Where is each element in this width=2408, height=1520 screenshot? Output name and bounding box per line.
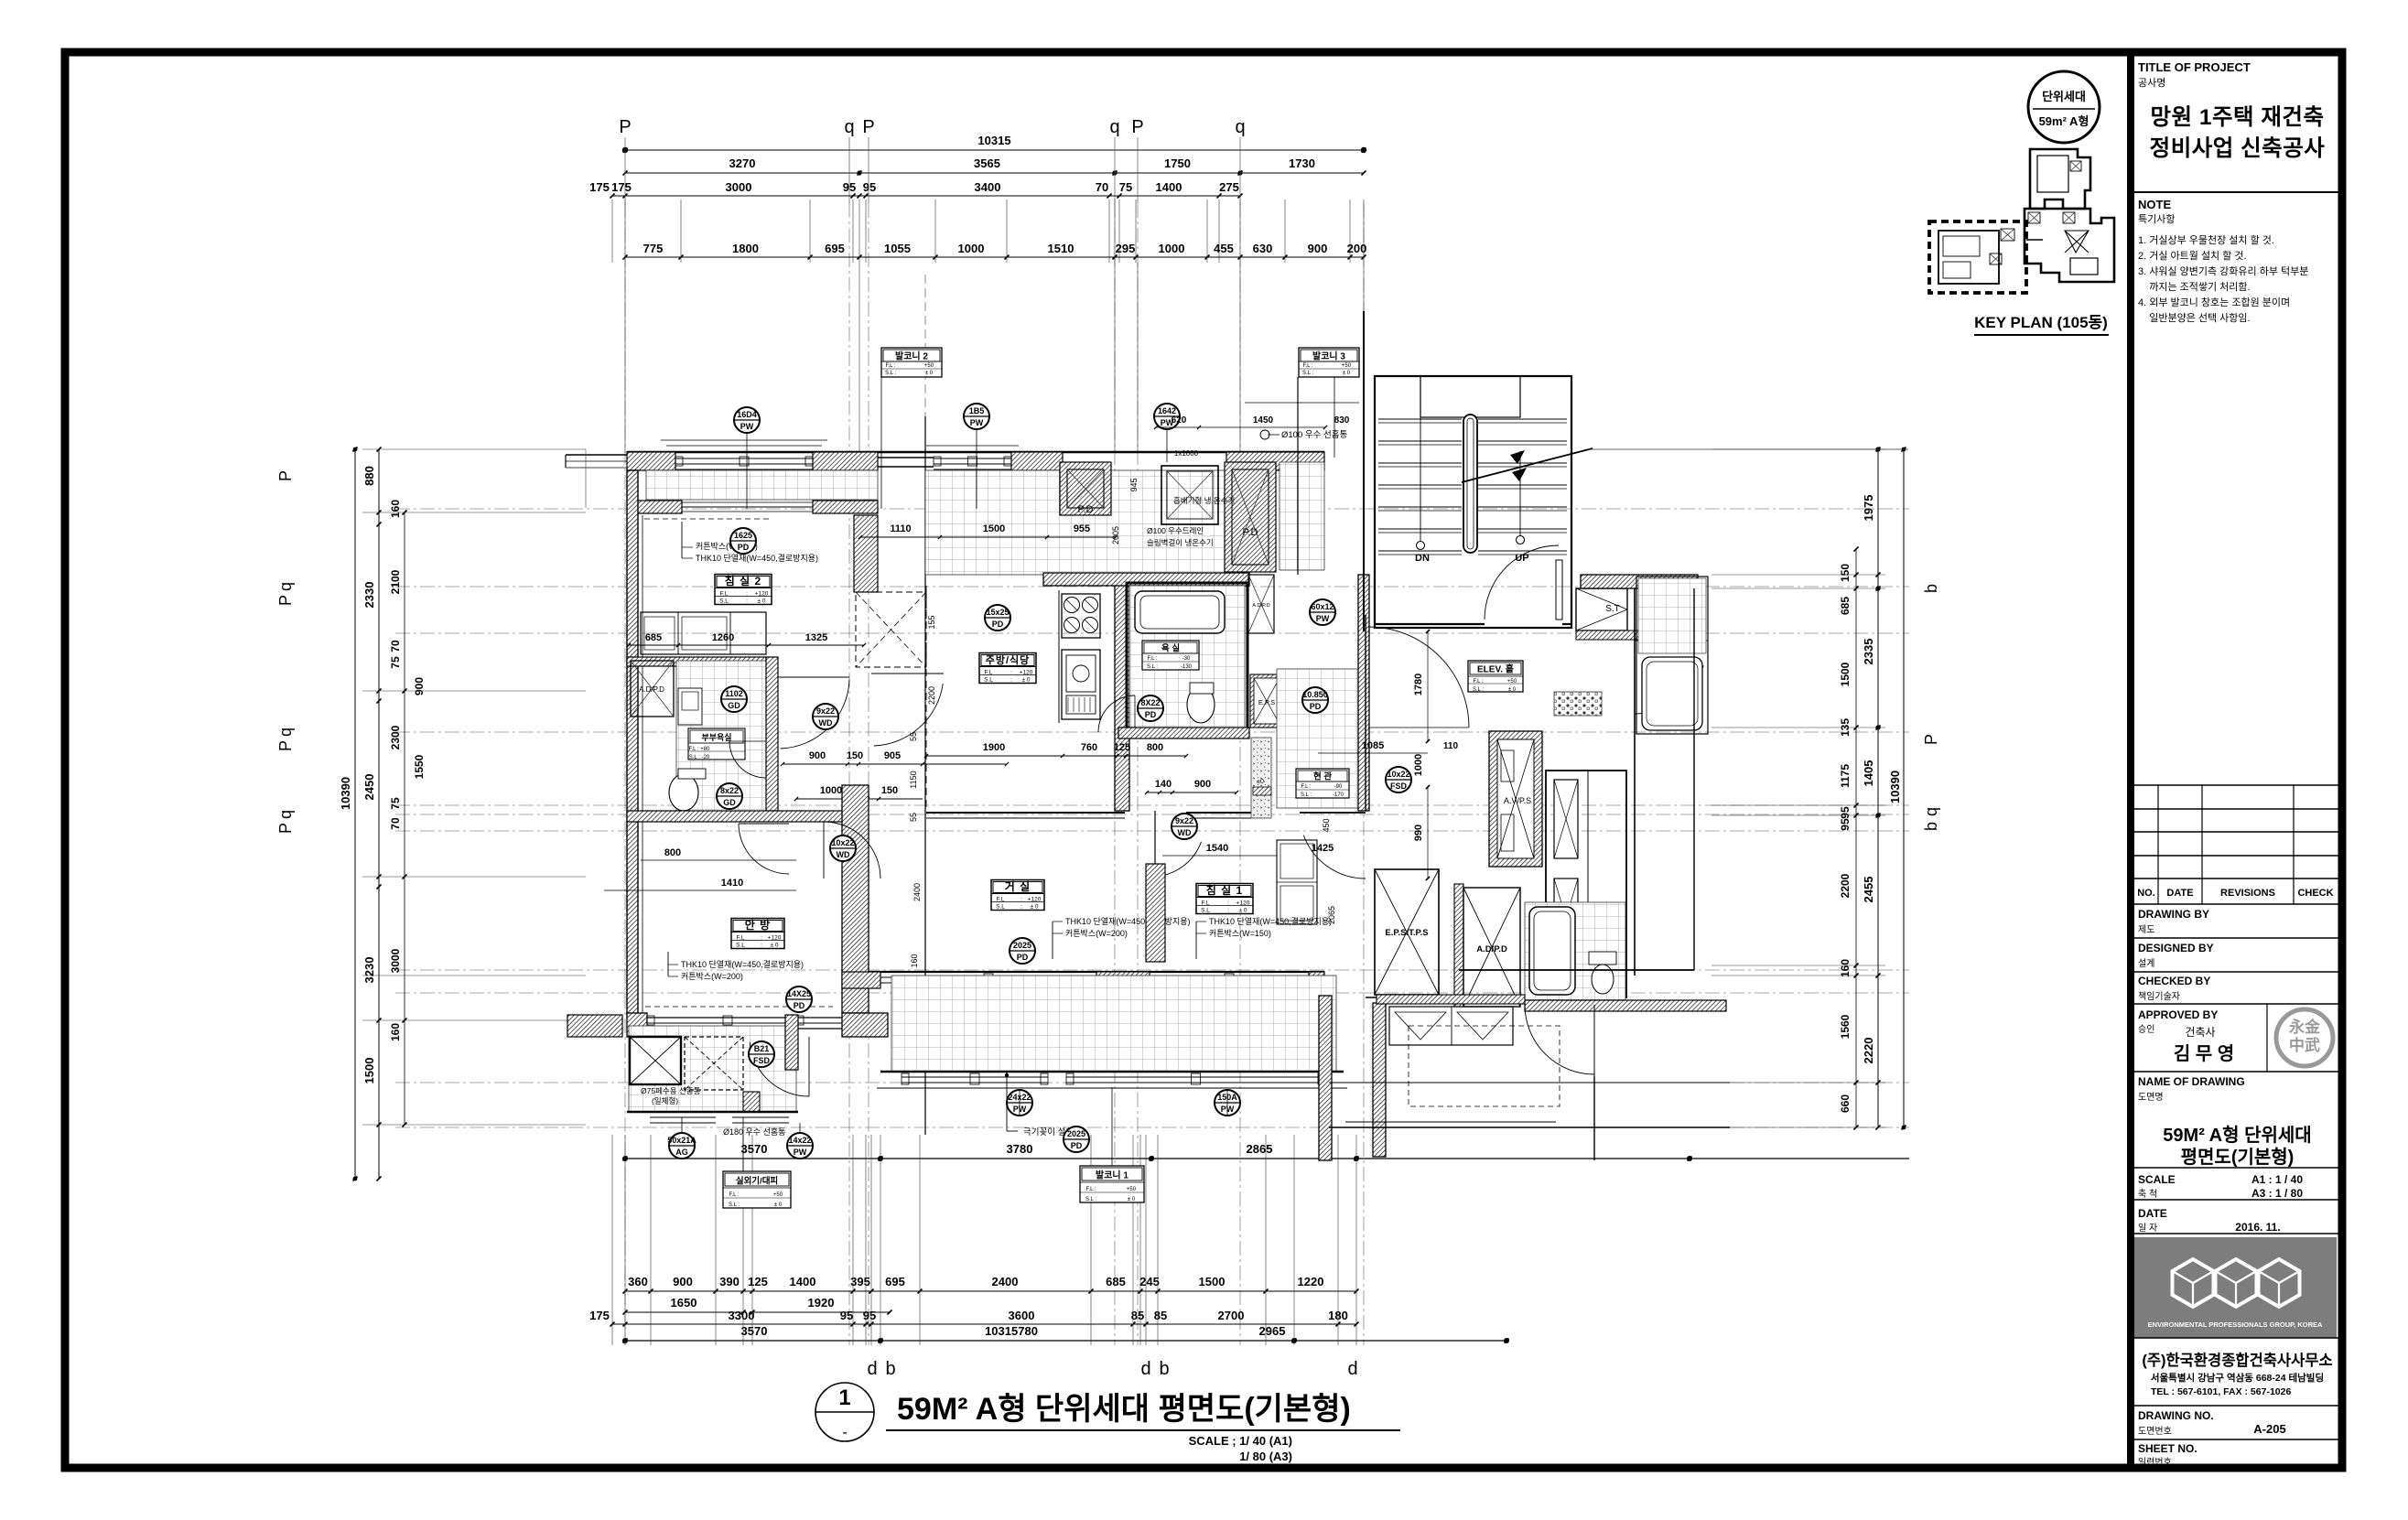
svg-text:일 자: 일 자 — [2138, 1223, 2157, 1234]
svg-text:S.L: S.L — [719, 598, 729, 605]
svg-text:침 실 2: 침 실 2 — [725, 574, 761, 588]
svg-text::: : — [746, 591, 748, 598]
svg-text:안 방: 안 방 — [745, 918, 771, 932]
svg-text:695: 695 — [825, 242, 845, 255]
svg-text:175: 175 — [589, 1309, 610, 1322]
svg-text:Ø100 우수 선홈통: Ø100 우수 선홈통 — [1281, 429, 1347, 440]
svg-text:1500: 1500 — [983, 523, 1005, 534]
svg-text:± 0: ± 0 — [1343, 371, 1351, 376]
svg-text:SCALE ; 1/ 40 (A1): SCALE ; 1/ 40 (A1) — [1189, 1434, 1292, 1448]
svg-text:F.L: F.L — [1202, 900, 1210, 907]
svg-text:4. 외부 발코니 창호는 조합원 분이며: 4. 외부 발코니 창호는 조합원 분이며 — [2138, 296, 2290, 308]
svg-text:390: 390 — [719, 1275, 740, 1288]
svg-text:S.L : -20: S.L : -20 — [689, 755, 710, 760]
svg-text:1110: 1110 — [890, 523, 911, 534]
svg-text:75: 75 — [1119, 180, 1132, 194]
svg-text:± 0: ± 0 — [1239, 908, 1247, 914]
svg-text:905: 905 — [884, 750, 901, 761]
svg-text:± 0: ± 0 — [774, 1202, 783, 1208]
svg-text::: : — [1010, 670, 1012, 676]
svg-text:10390: 10390 — [1888, 771, 1902, 803]
svg-text:3. 샤워실 양변기측 강화유리 하부 턱부분: 3. 샤워실 양변기측 강화유리 하부 턱부분 — [2138, 264, 2308, 277]
svg-text:커튼박스(W=200): 커튼박스(W=200) — [1065, 929, 1128, 938]
svg-text:TITLE OF PROJECT: TITLE OF PROJECT — [2138, 60, 2251, 74]
svg-text:110: 110 — [1443, 741, 1459, 751]
svg-text:WD: WD — [1178, 828, 1192, 837]
svg-text:WD: WD — [819, 718, 833, 728]
svg-text:75: 75 — [389, 797, 402, 810]
svg-text:± 0: ± 0 — [1031, 904, 1039, 911]
svg-text:FSD: FSD — [1390, 782, 1408, 791]
svg-text:450: 450 — [1322, 818, 1331, 832]
svg-text:PD: PD — [1145, 710, 1157, 719]
svg-text:2335: 2335 — [1862, 639, 1875, 665]
svg-text:125: 125 — [1114, 742, 1130, 753]
svg-text:800: 800 — [1147, 742, 1163, 753]
svg-text:E.P.S/T.P.S: E.P.S/T.P.S — [1385, 928, 1428, 938]
svg-text:일련번호: 일련번호 — [2138, 1457, 2172, 1468]
svg-text:정비사업 신축공사: 정비사업 신축공사 — [2150, 135, 2326, 161]
svg-text:59M² A형 단위세대: 59M² A형 단위세대 — [2163, 1125, 2311, 1146]
svg-text:10390: 10390 — [339, 777, 352, 810]
svg-text:150: 150 — [881, 785, 898, 796]
svg-text:3570: 3570 — [741, 1324, 768, 1338]
svg-text:+50: +50 — [773, 1192, 783, 1198]
svg-text:d: d — [867, 1359, 877, 1379]
svg-text:S.L: S.L — [996, 904, 1005, 911]
svg-text:F.L :: F.L : — [729, 1192, 739, 1198]
svg-text:1750: 1750 — [1164, 156, 1191, 170]
svg-text::: : — [761, 943, 762, 949]
svg-text:발코니 1: 발코니 1 — [1096, 1170, 1128, 1181]
svg-text:± 0: ± 0 — [925, 371, 934, 376]
svg-text:A.D/P.D: A.D/P.D — [639, 685, 664, 694]
svg-text:永金: 永金 — [2288, 1018, 2321, 1036]
svg-text:1625: 1625 — [734, 531, 752, 540]
svg-text:까지는 조적쌓기 처리함.: 까지는 조적쌓기 처리함. — [2138, 281, 2251, 293]
svg-text:A3 : 1 / 80: A3 : 1 / 80 — [2251, 1187, 2303, 1200]
svg-text:슬림벽걸이 냉온수기: 슬림벽걸이 냉온수기 — [1147, 538, 1214, 547]
svg-text::: : — [1020, 897, 1022, 903]
svg-text:P.D: P.D — [1078, 504, 1094, 515]
svg-text:GD: GD — [723, 798, 736, 807]
svg-text:A.D/P.D: A.D/P.D — [1252, 603, 1269, 609]
svg-text:PD: PD — [1310, 702, 1322, 711]
svg-text:830: 830 — [1334, 415, 1350, 426]
svg-text:275: 275 — [1219, 180, 1239, 194]
svg-text:1730: 1730 — [1289, 156, 1315, 170]
svg-text:160: 160 — [1839, 959, 1852, 977]
svg-text:P: P — [1922, 734, 1940, 745]
svg-text:1B5: 1B5 — [969, 406, 985, 415]
svg-text:+120: +120 — [755, 591, 769, 598]
svg-text:b: b — [1922, 584, 1940, 593]
svg-text:E.P.S: E.P.S — [1258, 698, 1275, 706]
svg-text:NAME OF DRAWING: NAME OF DRAWING — [2138, 1075, 2245, 1088]
svg-text:+50: +50 — [1127, 1187, 1137, 1192]
svg-text:175: 175 — [611, 180, 632, 194]
svg-text:P.D: P.D — [1243, 527, 1258, 538]
svg-text:2. 거실 아트월 설치 할 것.: 2. 거실 아트월 설치 할 것. — [2138, 250, 2247, 262]
svg-text:d: d — [1140, 1359, 1150, 1379]
svg-text:공사명: 공사명 — [2138, 77, 2165, 89]
svg-text:WD: WD — [837, 850, 850, 859]
svg-text:60x12: 60x12 — [1311, 602, 1334, 611]
svg-text:F.L :: F.L : — [1302, 363, 1312, 369]
svg-text:TEL : 567-6101, FAX : 567-1026: TEL : 567-6101, FAX : 567-1026 — [2151, 1386, 2291, 1397]
svg-text:395: 395 — [850, 1275, 870, 1288]
svg-text:15x25: 15x25 — [986, 608, 1009, 617]
svg-text:F.L: F.L — [985, 670, 993, 676]
svg-text:NO.: NO. — [2137, 888, 2155, 899]
svg-text:q: q — [1235, 117, 1245, 137]
svg-text:150: 150 — [847, 750, 863, 761]
svg-text:1410: 1410 — [721, 878, 743, 889]
svg-text:95: 95 — [1839, 818, 1852, 831]
svg-text:± 0: ± 0 — [771, 943, 779, 949]
svg-text:55: 55 — [909, 732, 918, 741]
svg-text:2965: 2965 — [1259, 1324, 1286, 1338]
svg-text:14X25: 14X25 — [787, 989, 811, 998]
svg-text:Ø75페수용 선홈통: Ø75페수용 선홈통 — [641, 1086, 701, 1095]
svg-text:q: q — [276, 810, 295, 819]
svg-text:S.L: S.L — [984, 677, 993, 684]
svg-text:PD: PD — [992, 620, 1004, 629]
svg-text:1000: 1000 — [1413, 754, 1424, 776]
svg-text:1. 거실상부 우물천장 설치 할 것.: 1. 거실상부 우물천장 설치 할 것. — [2138, 233, 2274, 246]
svg-text:2330: 2330 — [362, 582, 376, 609]
svg-text:3270: 3270 — [729, 156, 756, 170]
svg-text:책임기술자: 책임기술자 — [2138, 990, 2180, 1002]
svg-text:685: 685 — [645, 632, 662, 643]
svg-text:DESIGNED BY: DESIGNED BY — [2138, 942, 2214, 954]
svg-text:DATE: DATE — [2138, 1207, 2167, 1220]
svg-text:승인: 승인 — [2138, 1024, 2154, 1035]
svg-text:2016. 11.: 2016. 11. — [2235, 1221, 2280, 1234]
svg-text:S.T: S.T — [1605, 604, 1620, 614]
svg-text:± 0: ± 0 — [1128, 1197, 1136, 1202]
svg-text:THK10 단열재(W=450,결로방지용): THK10 단열재(W=450,결로방지용) — [696, 554, 818, 563]
svg-text:망원 1주택 재건축: 망원 1주택 재건축 — [2150, 104, 2324, 130]
svg-text:S.L :: S.L : — [729, 1202, 740, 1208]
svg-text:3400: 3400 — [975, 180, 1001, 194]
svg-text:주방/식당: 주방/식당 — [986, 653, 1031, 666]
svg-text:2220: 2220 — [1862, 1038, 1875, 1064]
svg-text:+50: +50 — [1507, 679, 1517, 685]
svg-text:SCALE: SCALE — [2138, 1173, 2176, 1186]
svg-text:A.V/P.S: A.V/P.S — [1504, 796, 1531, 805]
svg-text:F.L: F.L — [720, 591, 729, 598]
svg-text:1175: 1175 — [1839, 764, 1852, 788]
svg-text:3230: 3230 — [362, 957, 376, 984]
svg-text:2450: 2450 — [362, 774, 376, 801]
svg-text:2455: 2455 — [1862, 877, 1875, 903]
svg-text:10x22: 10x22 — [831, 838, 854, 847]
svg-text:F.L: F.L — [997, 897, 1005, 903]
svg-text:945: 945 — [1129, 478, 1139, 491]
svg-text:-130: -130 — [1181, 664, 1193, 670]
svg-text:3300: 3300 — [729, 1309, 755, 1322]
svg-text::: : — [1010, 677, 1012, 684]
svg-text:3000: 3000 — [726, 180, 752, 194]
svg-text:70: 70 — [389, 640, 402, 652]
svg-text:침 실 1: 침 실 1 — [1206, 883, 1243, 897]
svg-text:1800: 1800 — [732, 242, 759, 255]
svg-text:도면명: 도면명 — [2138, 1092, 2164, 1103]
svg-text:-: - — [842, 1425, 847, 1440]
svg-text:도면번호: 도면번호 — [2138, 1426, 2172, 1437]
svg-text:155: 155 — [927, 615, 936, 629]
svg-text:10x22: 10x22 — [1387, 770, 1409, 779]
svg-text:59m² A형: 59m² A형 — [2039, 114, 2089, 128]
svg-text:75: 75 — [389, 656, 402, 669]
svg-text:d: d — [1347, 1359, 1357, 1379]
svg-text:b: b — [1159, 1359, 1169, 1379]
svg-text:1/ 80 (A3): 1/ 80 (A3) — [1239, 1450, 1292, 1463]
svg-text:건축사: 건축사 — [2185, 1026, 2215, 1039]
svg-text:S.L: S.L — [1201, 908, 1210, 914]
svg-text:1055: 1055 — [884, 242, 911, 255]
svg-text:150: 150 — [1839, 564, 1852, 582]
svg-text:서울특별시 강남구 역삼동 668-24 테남빌딩: 서울특별시 강남구 역삼동 668-24 테남빌딩 — [2151, 1372, 2324, 1384]
svg-text:1000: 1000 — [1159, 242, 1185, 255]
svg-text:3780: 3780 — [1007, 1142, 1033, 1156]
svg-text:1150: 1150 — [909, 771, 918, 788]
svg-text:PD: PD — [1017, 953, 1029, 962]
svg-text:1102: 1102 — [725, 689, 743, 698]
svg-text:+120: +120 — [1020, 670, 1033, 676]
svg-text:F.L :: F.L : — [1085, 1187, 1096, 1192]
svg-text:1642: 1642 — [1158, 406, 1176, 415]
svg-text:1650: 1650 — [671, 1296, 697, 1310]
svg-text:거 실: 거 실 — [1005, 879, 1031, 893]
svg-text:b: b — [1922, 822, 1940, 831]
svg-text:FSD: FSD — [753, 1056, 771, 1065]
svg-text:8X22: 8X22 — [1140, 698, 1160, 707]
svg-text:PD: PD — [794, 1001, 805, 1010]
svg-text:-170: -170 — [1333, 792, 1344, 798]
svg-text:685: 685 — [1106, 1275, 1126, 1288]
svg-text:ELEV. 홀: ELEV. 홀 — [1477, 663, 1514, 675]
svg-text:1540: 1540 — [1206, 843, 1228, 854]
svg-text:1510: 1510 — [1048, 242, 1074, 255]
svg-text:70: 70 — [1096, 180, 1108, 194]
svg-text:PW: PW — [740, 422, 754, 431]
svg-text:900: 900 — [1308, 242, 1328, 255]
svg-text:140: 140 — [1155, 779, 1172, 790]
svg-text:현 관: 현 관 — [1313, 771, 1332, 782]
svg-text:245: 245 — [1139, 1275, 1160, 1288]
svg-text:695: 695 — [885, 1275, 905, 1288]
svg-text:S.L :: S.L : — [1473, 687, 1484, 693]
svg-text:F.L :: F.L : — [1301, 784, 1311, 790]
svg-text:1500: 1500 — [362, 1058, 376, 1084]
svg-text:160: 160 — [389, 1023, 402, 1041]
svg-text:THK10 단열재(W=450, 결로방지용): THK10 단열재(W=450, 결로방지용) — [1065, 917, 1191, 926]
svg-text:10315: 10315 — [977, 134, 1010, 147]
svg-text:GD: GD — [728, 701, 740, 710]
svg-text:1920: 1920 — [808, 1296, 835, 1310]
svg-text:1400: 1400 — [1156, 180, 1182, 194]
svg-text:2300: 2300 — [389, 725, 402, 749]
svg-text::: : — [746, 598, 748, 605]
svg-text:16D4: 16D4 — [737, 410, 757, 419]
svg-text:P: P — [862, 117, 874, 137]
svg-text:900: 900 — [413, 677, 426, 695]
svg-text:2400: 2400 — [912, 883, 922, 901]
svg-text:1450: 1450 — [1253, 415, 1274, 426]
svg-text:DRAWING NO.: DRAWING NO. — [2138, 1409, 2214, 1422]
svg-text:PD: PD — [1071, 1141, 1083, 1150]
svg-text:1400: 1400 — [790, 1275, 816, 1288]
svg-text:발코니 3: 발코니 3 — [1312, 350, 1345, 362]
svg-text:S.L :: S.L : — [1301, 792, 1312, 798]
svg-text:THK10 단열재(W=450,결로방지용): THK10 단열재(W=450,결로방지용) — [681, 960, 804, 969]
svg-text:1x1000: 1x1000 — [1174, 449, 1199, 458]
svg-text:1500: 1500 — [1199, 1275, 1226, 1288]
svg-text:95: 95 — [1839, 806, 1852, 819]
svg-text:SHEET NO.: SHEET NO. — [2138, 1442, 2197, 1455]
svg-text:부부욕실: 부부욕실 — [701, 732, 731, 742]
svg-text:REVISIONS: REVISIONS — [2220, 888, 2275, 899]
svg-text:175: 175 — [589, 180, 610, 194]
svg-text:880: 880 — [362, 466, 376, 486]
svg-text:q: q — [276, 582, 295, 591]
svg-text:360: 360 — [628, 1275, 648, 1288]
svg-text:+50: +50 — [924, 363, 934, 369]
svg-text:95: 95 — [840, 1309, 853, 1322]
svg-text:900: 900 — [1194, 779, 1211, 790]
svg-text:1560: 1560 — [1839, 1014, 1852, 1039]
svg-text::: : — [1227, 908, 1229, 914]
svg-text:125: 125 — [748, 1275, 768, 1288]
svg-text:295: 295 — [1116, 242, 1136, 255]
svg-text:685: 685 — [1839, 597, 1852, 615]
svg-text:CHECK: CHECK — [2297, 888, 2333, 899]
svg-text:955: 955 — [1074, 523, 1090, 534]
svg-text:P: P — [276, 823, 295, 834]
svg-text:2025: 2025 — [1013, 941, 1031, 950]
svg-text::: : — [761, 935, 762, 942]
svg-text:1900: 1900 — [983, 742, 1005, 753]
svg-text:b: b — [885, 1359, 895, 1379]
svg-text:900: 900 — [809, 750, 826, 761]
svg-text:S.L :: S.L : — [1302, 371, 1313, 376]
svg-text:Ø100 우수드레인: Ø100 우수드레인 — [1147, 526, 1204, 535]
svg-text:DN: DN — [1415, 553, 1430, 564]
svg-text:990: 990 — [1413, 825, 1424, 841]
svg-text:김 무 영: 김 무 영 — [2174, 1043, 2234, 1064]
svg-text:CHECKED BY: CHECKED BY — [2138, 975, 2210, 987]
svg-text:1500: 1500 — [1839, 662, 1852, 686]
svg-text:160: 160 — [910, 954, 919, 967]
svg-text:설계: 설계 — [2138, 958, 2154, 969]
svg-text:3000: 3000 — [389, 948, 402, 973]
svg-text:F.L :: F.L : — [1147, 656, 1157, 662]
svg-text:P: P — [1131, 117, 1143, 137]
svg-text:단위세대: 단위세대 — [2042, 90, 2086, 103]
svg-text:8x22: 8x22 — [720, 786, 739, 795]
svg-text:2005: 2005 — [1111, 526, 1120, 544]
svg-text:± 0: ± 0 — [1022, 677, 1031, 684]
svg-text:2700: 2700 — [1218, 1309, 1245, 1322]
svg-text:특기사항: 특기사항 — [2138, 213, 2175, 225]
svg-text:900: 900 — [673, 1275, 693, 1288]
svg-text:59M² A형 단위세대 평면도(기본형): 59M² A형 단위세대 평면도(기본형) — [897, 1392, 1351, 1427]
svg-text:욕 실: 욕 실 — [1161, 643, 1180, 654]
svg-text:NOTE: NOTE — [2138, 198, 2171, 211]
svg-text::: : — [1020, 904, 1022, 911]
svg-text:평면도(기본형): 평면도(기본형) — [2181, 1147, 2295, 1168]
svg-text:F.L : +80: F.L : +80 — [689, 747, 711, 752]
svg-text:P: P — [619, 117, 631, 137]
svg-text:DRAWING BY: DRAWING BY — [2138, 908, 2209, 921]
svg-text:S.L :: S.L : — [885, 371, 896, 376]
svg-text:2100: 2100 — [389, 569, 402, 594]
svg-text:9x22: 9x22 — [1175, 816, 1193, 825]
svg-text:1000: 1000 — [958, 242, 985, 255]
svg-text:775: 775 — [643, 242, 664, 255]
svg-text:620: 620 — [1172, 415, 1187, 426]
svg-text:PW: PW — [1316, 614, 1330, 623]
svg-text:3565: 3565 — [974, 156, 1000, 170]
svg-text:커튼박스(W=200): 커튼박스(W=200) — [681, 972, 743, 981]
svg-text:9x22: 9x22 — [816, 706, 835, 716]
svg-text:B21: B21 — [754, 1044, 770, 1053]
svg-text:+50: +50 — [1342, 363, 1352, 369]
svg-text:660: 660 — [1839, 1094, 1852, 1113]
svg-text:S.L: S.L — [736, 943, 745, 949]
svg-text:A1 : 1 / 40: A1 : 1 / 40 — [2251, 1173, 2303, 1186]
svg-text:커튼박스(W=150): 커튼박스(W=150) — [1209, 929, 1271, 938]
svg-text:PW: PW — [970, 418, 984, 427]
svg-text:10315780: 10315780 — [985, 1324, 1038, 1338]
svg-text:q: q — [1922, 807, 1940, 816]
svg-text:95: 95 — [863, 1309, 876, 1322]
svg-text:± 0: ± 0 — [1508, 687, 1517, 693]
svg-text:-30: -30 — [1182, 656, 1191, 662]
svg-text:+120: +120 — [768, 935, 782, 942]
svg-text:+120: +120 — [1236, 900, 1250, 907]
svg-text:q: q — [276, 728, 295, 737]
svg-text:14x22: 14x22 — [788, 1136, 811, 1145]
svg-text:A.D/P.D: A.D/P.D — [1476, 944, 1507, 954]
svg-text:-90: -90 — [1334, 784, 1343, 790]
svg-text:+120: +120 — [1028, 897, 1042, 903]
svg-text:1550: 1550 — [413, 754, 426, 779]
svg-text:제도: 제도 — [2138, 924, 2154, 935]
svg-text:1780: 1780 — [1413, 674, 1424, 695]
svg-text:± 0: ± 0 — [758, 598, 766, 605]
svg-text:S.L :: S.L : — [1085, 1197, 1096, 1202]
svg-text:PD: PD — [738, 543, 750, 552]
svg-text:일반분양은 선택 사항임.: 일반분양은 선택 사항임. — [2138, 311, 2251, 324]
svg-text:2865: 2865 — [1247, 1142, 1273, 1156]
svg-text:PW: PW — [794, 1148, 807, 1157]
svg-text:A-205: A-205 — [2253, 1422, 2285, 1436]
svg-text:2200: 2200 — [1839, 873, 1852, 898]
svg-text:55: 55 — [909, 813, 918, 822]
svg-text:1425: 1425 — [1312, 843, 1334, 854]
svg-text:S.L :: S.L : — [1147, 664, 1158, 670]
svg-text:50x21A: 50x21A — [667, 1136, 696, 1145]
svg-text:실외기/대피: 실외기/대피 — [736, 1176, 778, 1187]
svg-text:455: 455 — [1214, 242, 1234, 255]
svg-text:2400: 2400 — [992, 1275, 1019, 1288]
svg-text:1000: 1000 — [820, 785, 842, 796]
svg-text:2025: 2025 — [1067, 1129, 1085, 1138]
svg-text:1975: 1975 — [1862, 495, 1875, 522]
